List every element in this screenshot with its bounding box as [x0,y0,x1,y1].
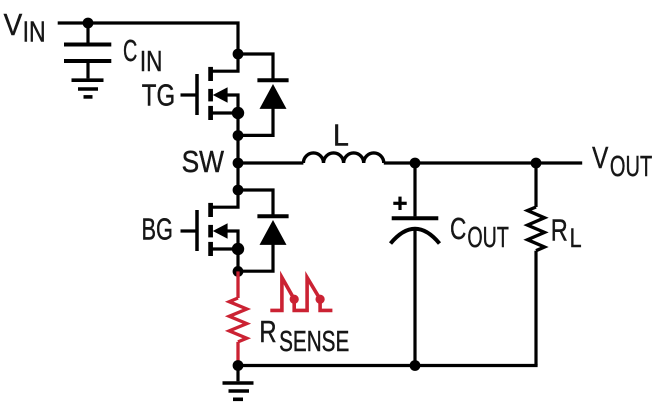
transistor BG (low-side NMOS) [181,203,239,256]
node RL top junction [531,158,542,169]
wire COUT top lead [413,163,416,216]
label RSENSE [259,314,349,358]
wire bottom return rail [238,364,538,367]
wire COUT bottom lead [413,230,416,366]
svg-text:BG: BG [142,212,174,247]
wire SW to inductor [238,161,303,164]
wire high-side diode branch top [238,54,273,80]
diode D1 (body diode of TG) [257,80,288,109]
svg-text:V: V [592,140,608,175]
svg-text:C: C [123,33,137,68]
node high-side diode top junction [233,49,244,60]
node RSENSE top junction [233,266,244,277]
wire top rail VIN to high-side drain corner [58,23,238,71]
svg-text:IN: IN [23,17,46,49]
node COUT bottom junction [410,360,421,371]
svg-text:R: R [259,314,276,349]
wire low-side diode branch top [238,190,273,216]
svg-text:SENSE: SENSE [279,326,349,358]
wire inductor to VOUT [384,161,582,164]
capacitor CIN [64,45,111,62]
node BG source junction [232,243,244,255]
resistor RSENSE (red) [229,271,247,365]
node VIN tap junction [83,18,94,29]
wire rail TG source to BG drain corner [211,113,239,207]
label CIN [123,33,162,78]
svg-text:OUT: OUT [610,151,652,183]
capacitor COUT (polarized) [391,218,440,243]
node COUT top junction [410,158,421,169]
node TG source junction [232,107,244,119]
svg-text:C: C [450,211,466,246]
svg-text:R: R [551,213,568,248]
label VOUT [592,140,652,183]
wire RL top lead [534,163,537,207]
wire high-side diode branch bottom [238,107,273,135]
label VIN [4,7,46,49]
transistor TG (high-side NMOS) [181,67,239,120]
svg-text:L: L [333,117,349,152]
wire CIN lead from top rail [86,23,89,43]
resistor RL [528,207,545,251]
label COUT [450,211,509,254]
diode D2 (body diode of BG) [257,216,288,245]
svg-text:IN: IN [140,46,163,78]
wire RL bottom lead [534,251,537,366]
svg-text:TG: TG [142,78,175,113]
ground main [223,366,254,400]
plus sign COUT polarity [393,197,406,210]
wire rail BG source down [236,249,239,271]
node diode bottom junction [233,130,244,141]
svg-text:OUT: OUT [467,222,509,254]
node ground junction bottom left [233,360,244,371]
wire low-side diode branch bottom [238,243,273,271]
node SW [233,158,244,169]
svg-text:SW: SW [182,144,225,179]
ground CIN [72,80,104,97]
wire CIN to ground [86,63,89,78]
svg-text:V: V [4,7,23,42]
current sense waveform icon (red) [270,278,332,311]
label RL [551,213,582,253]
inductor L [303,153,383,163]
node BG diode top junction [233,185,244,196]
svg-text:L: L [570,223,582,253]
